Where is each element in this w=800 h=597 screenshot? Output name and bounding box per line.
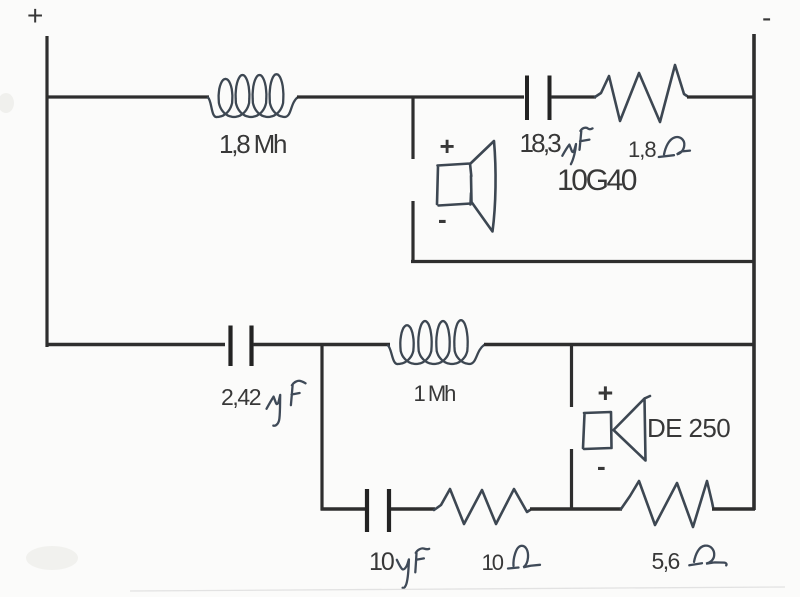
- resistor R3 5,6 ohm zigzag: [621, 481, 713, 527]
- inductor L1 1,8 Mh coil: [208, 74, 298, 117]
- wire: top section bottom return: [411, 260, 755, 263]
- wire: top wire after C1: [551, 95, 596, 98]
- speaker U1 10G40 symbol: [437, 141, 496, 232]
- wire: top wire left segment: [46, 95, 209, 98]
- svg-text:5,6: 5,6: [652, 548, 680, 574]
- svg-text:-: -: [597, 451, 606, 481]
- svg-text:+: +: [440, 131, 455, 161]
- wire: left rail: [45, 36, 48, 347]
- svg-text:2,42: 2,42: [221, 384, 261, 410]
- label ohm for R3 (handwritten): [689, 546, 726, 566]
- svg-text:+: +: [598, 378, 614, 408]
- svg-text:10: 10: [482, 550, 504, 575]
- scanner artifact smudge left: [26, 546, 78, 570]
- wire: tweeter branch vertical upper stub: [411, 96, 414, 159]
- label uF for C3 (handwritten): [397, 548, 429, 588]
- label ohm for R2 (handwritten): [508, 546, 540, 569]
- wire: top wire mid segment: [297, 95, 524, 98]
- wire: mid wire right segment: [484, 343, 755, 347]
- resistor R2 10 ohm zigzag: [434, 489, 530, 524]
- scanner artifact faint bottom line: [130, 587, 785, 591]
- svg-text:1 Mh: 1 Mh: [414, 381, 456, 406]
- inductor L2 1 Mh coil: [388, 320, 484, 364]
- wire: mid wire second segment: [253, 343, 390, 347]
- svg-text:10G40: 10G40: [557, 164, 637, 197]
- svg-text:-: -: [438, 204, 447, 234]
- svg-text:18,3: 18,3: [520, 128, 562, 158]
- wire: DE250 branch upper stub: [570, 344, 573, 407]
- svg-text:1,8 Mh: 1,8 Mh: [219, 129, 286, 159]
- svg-text:1,8: 1,8: [628, 137, 656, 162]
- svg-text:DE 250: DE 250: [647, 413, 730, 443]
- svg-text:10: 10: [369, 548, 394, 576]
- wire: bottom wire right segment: [712, 507, 755, 511]
- wire: tweeter branch vertical lower stub: [411, 201, 414, 263]
- wire: top wire right segment: [687, 95, 755, 98]
- scanner artifact smudge left edge: [0, 93, 14, 113]
- svg-text:+: +: [27, 0, 43, 31]
- label uF for C1 (handwritten): [562, 128, 592, 164]
- capacitor C1 18,3 uF plates: [527, 76, 550, 121]
- wire: DE250 branch lower stub: [570, 449, 573, 510]
- wire: bottom wire third segment: [530, 507, 622, 511]
- speaker U2 DE 250 symbol: [583, 396, 650, 461]
- capacitor C2 2,42 uF plates: [231, 326, 252, 367]
- label uF for C2 (handwritten): [267, 381, 306, 426]
- wire: right rail: [752, 34, 756, 510]
- resistor R1 1,8 ohm zigzag: [595, 65, 687, 122]
- wire: branch vertical at x=322: [320, 344, 323, 510]
- wire: mid wire left segment: [46, 343, 225, 347]
- wire: bottom wire second segment: [391, 507, 435, 511]
- svg-text:-: -: [762, 2, 771, 33]
- label ohm for R1 (handwritten): [659, 137, 690, 157]
- capacitor C3 10 uF plates: [367, 489, 389, 532]
- wire: bottom wire left segment: [321, 507, 366, 511]
